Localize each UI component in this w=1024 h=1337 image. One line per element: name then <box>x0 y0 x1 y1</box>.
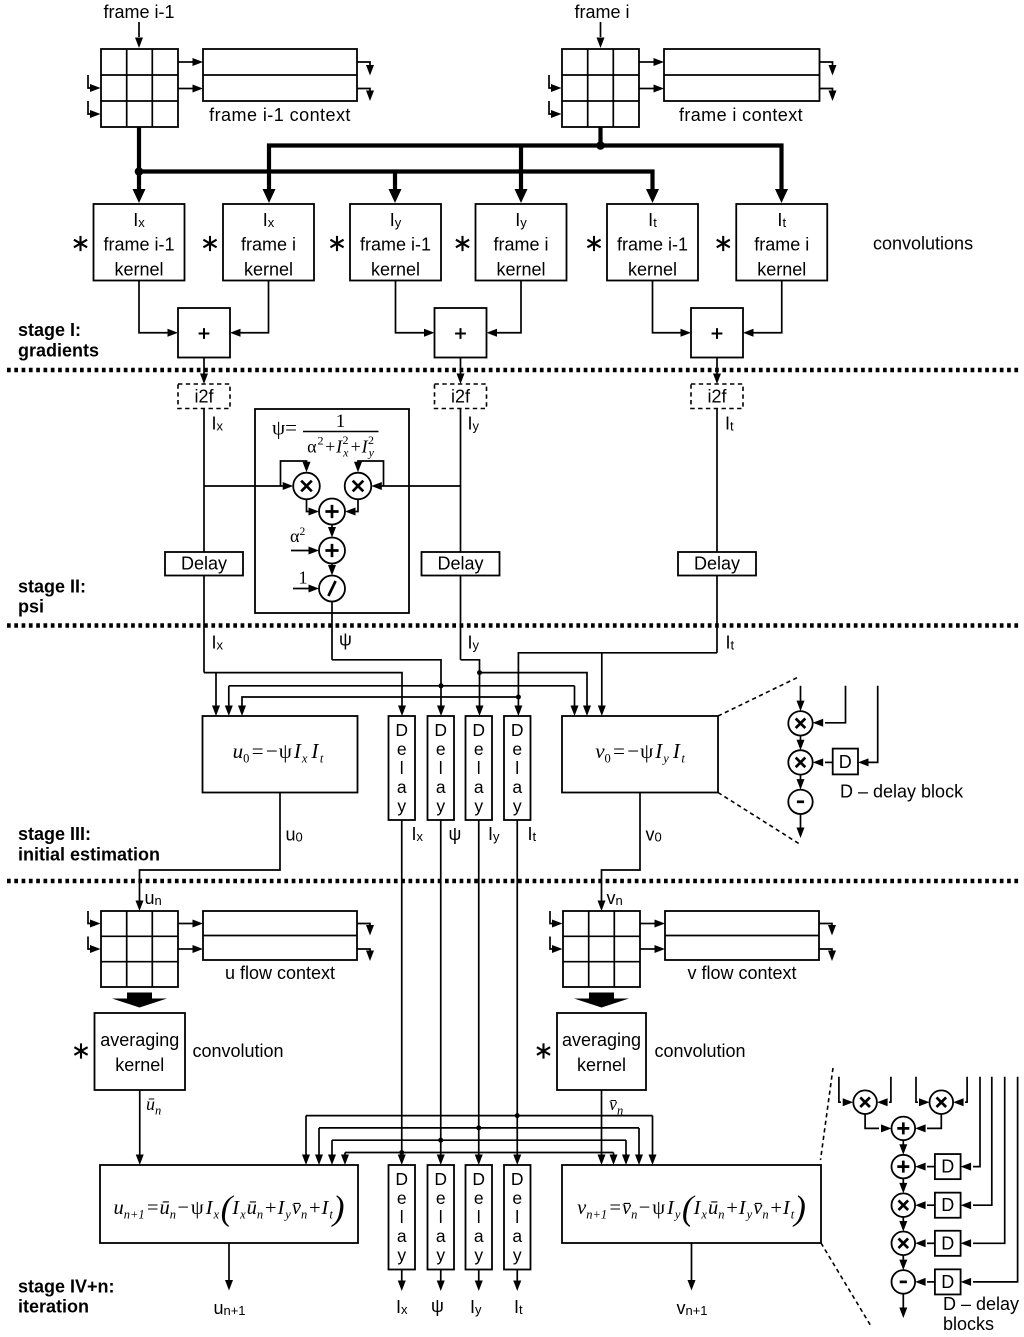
svg-text:1: 1 <box>299 568 308 588</box>
svg-text:y: y <box>513 1245 522 1265</box>
svg-text:D: D <box>472 720 485 740</box>
svg-text:stage I:: stage I: <box>18 320 81 340</box>
svg-text:D: D <box>941 1195 954 1215</box>
svg-text:frame i: frame i <box>754 235 809 255</box>
svg-text:blocks: blocks <box>943 1314 994 1334</box>
svg-text:kernel: kernel <box>496 260 545 280</box>
svg-text:i2f: i2f <box>707 387 727 407</box>
svg-text:psi: psi <box>18 597 44 617</box>
svg-text:convolutions: convolutions <box>873 234 973 254</box>
svg-text:e: e <box>474 739 484 759</box>
svg-text:ψ: ψ <box>431 1296 444 1316</box>
svg-text:D: D <box>434 1169 447 1189</box>
svg-text:e: e <box>436 1188 446 1208</box>
svg-text:Delay: Delay <box>181 554 227 574</box>
svg-text:stage III:: stage III: <box>18 824 91 844</box>
svg-text:y: y <box>397 1245 406 1265</box>
svg-text:l: l <box>400 758 404 778</box>
svg-text:a: a <box>512 1226 522 1246</box>
svg-text:ψ=: ψ= <box>272 416 297 440</box>
svg-text:ψ: ψ <box>339 630 352 650</box>
svg-text:initial estimation: initial estimation <box>18 845 160 865</box>
svg-text:kernel: kernel <box>757 260 806 280</box>
svg-text:D: D <box>395 720 408 740</box>
svg-text:frame i: frame i <box>241 235 296 255</box>
svg-text:frame i context: frame i context <box>679 105 803 125</box>
svg-text:convolution: convolution <box>655 1041 746 1061</box>
svg-text:l: l <box>477 1207 481 1227</box>
svg-text:a: a <box>397 1226 407 1246</box>
svg-text:frame i-1: frame i-1 <box>103 235 174 255</box>
svg-text:u flow context: u flow context <box>225 963 335 983</box>
svg-text:y: y <box>436 1245 445 1265</box>
svg-text:frame i: frame i <box>493 235 548 255</box>
svg-text:frame i-1: frame i-1 <box>103 2 174 22</box>
svg-text:e: e <box>512 1188 522 1208</box>
svg-text:D: D <box>472 1169 485 1189</box>
svg-text:l: l <box>477 758 481 778</box>
svg-text:l: l <box>515 758 519 778</box>
svg-text:Delay: Delay <box>437 554 483 574</box>
svg-text:y: y <box>474 1245 483 1265</box>
svg-text:kernel: kernel <box>577 1055 626 1075</box>
svg-text:a: a <box>436 1226 446 1246</box>
svg-text:stage II:: stage II: <box>18 577 86 597</box>
svg-text:kernel: kernel <box>371 260 420 280</box>
svg-text:iteration: iteration <box>18 1297 89 1317</box>
svg-text:stage IV+n:: stage IV+n: <box>18 1277 115 1297</box>
svg-text:D: D <box>511 1169 524 1189</box>
svg-text:convolution: convolution <box>193 1041 284 1061</box>
svg-text:y: y <box>397 796 406 816</box>
svg-text:D: D <box>941 1272 954 1292</box>
svg-text:e: e <box>436 739 446 759</box>
svg-text:l: l <box>400 1207 404 1227</box>
svg-text:D: D <box>434 720 447 740</box>
svg-text:a: a <box>397 777 407 797</box>
svg-text:D: D <box>839 752 852 772</box>
svg-text:a: a <box>474 1226 484 1246</box>
svg-text:D: D <box>941 1157 954 1177</box>
svg-text:y: y <box>436 796 445 816</box>
svg-text:a: a <box>512 777 522 797</box>
svg-text:kernel: kernel <box>244 260 293 280</box>
svg-text:averaging: averaging <box>562 1030 641 1050</box>
svg-text:frame i-1: frame i-1 <box>360 235 431 255</box>
svg-text:v flow context: v flow context <box>687 963 796 983</box>
svg-text:e: e <box>474 1188 484 1208</box>
svg-text:y: y <box>474 796 483 816</box>
svg-text:frame i-1: frame i-1 <box>617 235 688 255</box>
svg-text:frame i-1 context: frame i-1 context <box>209 105 351 125</box>
svg-text:ψ: ψ <box>449 824 462 844</box>
svg-text:kernel: kernel <box>114 260 163 280</box>
svg-text:l: l <box>439 1207 443 1227</box>
svg-text:D: D <box>395 1169 408 1189</box>
svg-text:kernel: kernel <box>115 1055 164 1075</box>
svg-text:gradients: gradients <box>18 341 99 361</box>
svg-text:averaging: averaging <box>100 1030 179 1050</box>
svg-text:e: e <box>512 739 522 759</box>
svg-text:frame i: frame i <box>574 2 629 22</box>
svg-text:Delay: Delay <box>694 554 740 574</box>
svg-text:e: e <box>397 1188 407 1208</box>
svg-text:1: 1 <box>336 411 346 432</box>
svg-text:D – delay: D – delay <box>943 1294 1019 1314</box>
svg-text:i2f: i2f <box>451 387 471 407</box>
svg-text:i2f: i2f <box>194 387 214 407</box>
svg-text:a: a <box>474 777 484 797</box>
svg-text:y: y <box>513 796 522 816</box>
svg-text:D: D <box>941 1233 954 1253</box>
svg-text:l: l <box>439 758 443 778</box>
svg-text:D: D <box>511 720 524 740</box>
svg-text:l: l <box>515 1207 519 1227</box>
svg-text:D – delay block: D – delay block <box>840 782 964 802</box>
svg-text:e: e <box>397 739 407 759</box>
svg-text:a: a <box>436 777 446 797</box>
svg-text:kernel: kernel <box>628 260 677 280</box>
